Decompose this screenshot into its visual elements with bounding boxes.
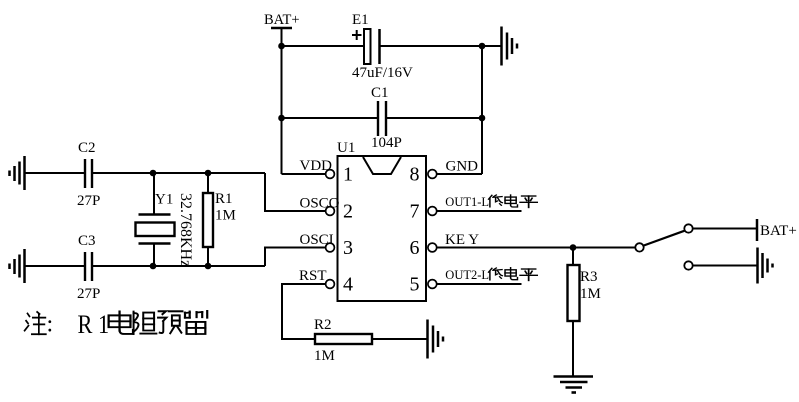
wire C3 to OSCI corner — [93, 265, 265, 267]
IC U1 — [337, 140, 426, 301]
svg-text:OUT1-L: OUT1-L — [445, 195, 489, 209]
svg-text:OUT2-L: OUT2-L — [445, 268, 489, 282]
ground (R2, right-facing) — [428, 320, 444, 359]
U1 pin 3 circle — [326, 243, 335, 252]
junction KEY / R3 — [570, 244, 577, 251]
wire E1 to ground — [380, 45, 501, 47]
wire C1 right — [387, 117, 482, 119]
switch SW1 throw contact (GND) — [684, 261, 692, 269]
svg-text:GND: GND — [446, 158, 479, 174]
junction at BAT+ rail top — [278, 43, 285, 50]
svg-text:7: 7 — [410, 201, 420, 223]
junction Y1 top — [150, 170, 157, 177]
svg-text:OSCI: OSCI — [300, 232, 334, 248]
resistor R2 — [314, 317, 372, 344]
label OUT1-L低电平 — [445, 195, 537, 209]
svg-text:6: 6 — [410, 237, 420, 259]
junction R1 bottom — [205, 263, 212, 270]
U1 pin 2 circle — [326, 207, 335, 216]
junction Y1 bottom — [150, 263, 157, 270]
svg-text:U1: U1 — [337, 140, 355, 156]
crystal Y1 — [136, 173, 175, 266]
svg-text:3: 3 — [343, 237, 353, 259]
switch SW1 common contact — [635, 243, 643, 251]
svg-text:C3: C3 — [78, 233, 96, 249]
svg-text:4: 4 — [343, 274, 353, 296]
svg-text:2: 2 — [343, 201, 353, 223]
U1 pin 1 circle — [326, 170, 335, 179]
wire GND pin8 — [437, 173, 482, 175]
ground (left lower, left-facing) — [10, 249, 25, 283]
wire VDD pin1 — [282, 173, 326, 175]
svg-text:1M: 1M — [215, 208, 236, 224]
resistor R3 — [568, 248, 598, 378]
wire OSCO corner — [265, 173, 326, 211]
capacitor C3 — [78, 233, 96, 281]
wire OUT2 pin5 — [437, 283, 522, 285]
svg-text:BAT+: BAT+ — [760, 223, 797, 239]
svg-text::: : — [47, 312, 54, 338]
svg-text:27P: 27P — [77, 193, 100, 209]
svg-text:8: 8 — [410, 164, 420, 186]
junction GND rail / C1 — [479, 115, 486, 122]
U1 pin numbers 8-5 — [410, 164, 420, 296]
svg-text:E1: E1 — [352, 12, 369, 28]
ground (below R3, down-facing) — [554, 377, 594, 393]
U1 pin 6 circle — [428, 243, 437, 252]
capacitor C2 — [78, 140, 96, 188]
svg-text:Y1: Y1 — [155, 192, 173, 208]
wire OSCI corner — [265, 248, 326, 267]
capacitor C1 — [371, 85, 389, 136]
junction BAT+ rail / C1 — [278, 115, 285, 122]
svg-text:1M: 1M — [314, 348, 335, 364]
svg-text:47uF/16V: 47uF/16V — [352, 65, 413, 81]
U1 pin numbers 1-4 — [343, 164, 353, 296]
svg-text:RST: RST — [299, 268, 327, 284]
svg-text:VDD: VDD — [300, 158, 333, 174]
svg-text:R3: R3 — [580, 269, 598, 285]
svg-text:C1: C1 — [371, 85, 389, 101]
svg-text:32.768KHz: 32.768KHz — [177, 193, 194, 267]
svg-text:C2: C2 — [78, 140, 96, 156]
junction at GND rail top — [479, 43, 486, 50]
junction R1 top — [205, 170, 212, 177]
switch SW1 throw contact (BAT+) — [684, 224, 692, 232]
label OUT2-L低电平 — [445, 268, 537, 282]
wire C1 left — [282, 117, 378, 119]
wire C2 to OSCO corner — [93, 172, 265, 174]
U1 pin 5 circle — [428, 280, 437, 289]
svg-text:1M: 1M — [580, 286, 601, 302]
wire throw to BAT+ terminal — [693, 228, 756, 230]
svg-text:R 1: R 1 — [78, 310, 110, 339]
svg-text:104P: 104P — [371, 135, 402, 151]
resistor R1 — [203, 173, 233, 266]
wire KEY pin6 to switch — [437, 247, 636, 249]
svg-text:KE Y: KE Y — [445, 232, 479, 248]
ground (left upper, left-facing) — [10, 156, 25, 190]
capacitor E1 — [352, 12, 380, 64]
wire throw to ground — [693, 265, 757, 267]
wire ground to C3 — [25, 265, 84, 267]
svg-text:1: 1 — [343, 164, 353, 186]
port BAT+ (right) — [757, 219, 797, 241]
ground (right of switch, right-facing) — [758, 248, 773, 284]
U1 pin 8 circle — [428, 170, 437, 179]
switch SW1 blade — [644, 231, 685, 246]
ground (top right, right-facing) — [502, 27, 518, 66]
svg-text:27P: 27P — [77, 286, 100, 302]
wire R2 to ground — [372, 338, 427, 340]
wire ground to C2 — [25, 172, 84, 174]
svg-text:R1: R1 — [215, 191, 233, 207]
svg-text:BAT+: BAT+ — [264, 12, 300, 28]
svg-text:5: 5 — [410, 274, 420, 296]
U1 pin 4 circle — [326, 280, 335, 289]
wire BAT+ to E1 — [282, 45, 365, 47]
svg-text:R2: R2 — [314, 317, 332, 333]
wire OUT1 pin7 — [437, 210, 522, 212]
svg-text:OSCO: OSCO — [300, 195, 340, 211]
wire GND rail (vertical) — [481, 46, 483, 174]
note text: 注: R1电阻预留 — [25, 310, 208, 339]
wire BAT+ rail (vertical) — [281, 46, 283, 174]
U1 pin 7 circle — [428, 207, 437, 216]
wire RST pin4 to R2 — [282, 284, 326, 339]
port BAT+ (top) — [264, 12, 300, 46]
